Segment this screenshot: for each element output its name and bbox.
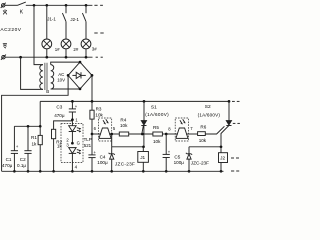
svg-text:+: +: [94, 150, 97, 155]
node neutral-xfmr: [19, 56, 22, 59]
bridge rectifier: [68, 62, 92, 89]
svg-text:C1: C1: [6, 157, 12, 162]
capacitor C5: [165, 134, 167, 154]
capacitor C1: [13, 126, 15, 150]
relay contact J1-1: [65, 5, 67, 13]
relay J2: [220, 147, 222, 153]
LED D2 (pins 3-4): [69, 148, 76, 154]
svg-text:+: +: [75, 104, 78, 109]
node C4 bottom: [91, 170, 94, 173]
node bridge left: [67, 74, 70, 77]
node rail-S2: [228, 100, 231, 103]
svg-text:4: 4: [75, 165, 78, 170]
wire neutral rail: [5, 56, 92, 58]
svg-text:7: 7: [190, 126, 193, 131]
phototransistor 2 (pins 8-7): [176, 128, 188, 138]
node pin4 bottom: [71, 170, 74, 173]
neutral terminal: [2, 56, 5, 59]
svg-text:3#: 3#: [92, 47, 97, 52]
live terminal: [2, 4, 5, 7]
svg-text:10k: 10k: [199, 138, 207, 143]
svg-text:10k: 10k: [153, 139, 161, 144]
transformer core: [44, 63, 46, 90]
svg-text:J1-1: J1-1: [47, 17, 56, 22]
node J1 bottom: [142, 170, 145, 173]
wire lamp1 top: [46, 5, 48, 39]
svg-text:G: G: [77, 141, 80, 146]
svg-text:C5: C5: [174, 155, 180, 160]
node R1 top: [39, 125, 42, 128]
continuation dashes mid level: [94, 32, 97, 34]
capacitor C3: [71, 101, 73, 109]
continuation dashes right S2 level: [233, 122, 236, 124]
wire neutral to primary bottom: [21, 57, 43, 89]
wire bridge minus to ground loop: [2, 75, 69, 171]
wire J1 net: [112, 146, 144, 148]
node zener2 bottom: [188, 170, 191, 173]
thyristor S2: [228, 101, 230, 120]
node pin5-R4-zener: [110, 133, 113, 136]
svg-text:0.1μ: 0.1μ: [17, 163, 26, 168]
lamp 3: [81, 39, 91, 49]
wire R6 to S2 gate: [205, 126, 224, 134]
svg-text:R5: R5: [153, 125, 159, 130]
LED D1 (pins 1-2): [71, 120, 73, 126]
svg-text:(1A/600V): (1A/600V): [198, 112, 221, 117]
svg-text:470μ: 470μ: [2, 163, 13, 168]
svg-text:TLP: TLP: [84, 137, 92, 142]
relay contact J2-1: [85, 5, 87, 13]
live label 火: [3, 9, 7, 14]
node bridge right: [91, 74, 94, 77]
svg-text:10k: 10k: [120, 123, 128, 128]
node rail-xfmr: [33, 4, 36, 7]
svg-text:8: 8: [168, 126, 171, 131]
svg-text:JZC-23F: JZC-23F: [191, 161, 209, 166]
node rail-C3: [71, 100, 74, 103]
svg-text:R6: R6: [200, 125, 206, 130]
node pin1: [71, 118, 74, 121]
phototransistor 2 dashed box: [175, 118, 188, 141]
svg-text:S1: S1: [151, 104, 157, 110]
svg-text:10V: 10V: [57, 77, 65, 82]
svg-text:J2: J2: [220, 155, 225, 160]
svg-text:1#: 1#: [55, 47, 60, 52]
lamp 2: [61, 39, 71, 49]
svg-text:R1: R1: [31, 135, 37, 140]
resistor R6: [198, 132, 206, 136]
optocoupler TLP521 input dashed box: [61, 124, 83, 163]
svg-text:3: 3: [66, 143, 69, 148]
wire filter node: [14, 125, 40, 127]
node rail-lamp1: [45, 4, 48, 7]
node rail-S1: [143, 100, 146, 103]
svg-text:5: 5: [113, 126, 116, 131]
wire bridge plus to DC rail: [91, 75, 93, 101]
resistor R4: [119, 132, 128, 136]
thyristor S1: [143, 101, 145, 120]
lamp 1: [42, 39, 52, 49]
wire pin5 node down to J1 net: [111, 134, 113, 147]
svg-text:470μ: 470μ: [54, 113, 65, 118]
wire rail left drop: [39, 101, 41, 126]
node J2 bottom: [220, 170, 223, 173]
continuation dashes right J2 level: [231, 157, 234, 159]
node R2 bottom: [52, 170, 55, 173]
node J1 top: [142, 145, 145, 148]
wire secondary top to bridge: [51, 62, 80, 65]
node R3-C4-pin6: [91, 133, 94, 136]
wire DC plus rail: [40, 100, 229, 102]
svg-text:J2-1: J2-1: [70, 17, 79, 22]
node S1 gate-cathode: [141, 133, 144, 136]
wire live to transformer primary: [34, 5, 43, 64]
svg-text:+: +: [168, 150, 171, 155]
svg-text:J1: J1: [140, 155, 145, 160]
wire top rail: [26, 4, 93, 6]
node C2 bottom: [27, 170, 30, 173]
wire R5 to pin8: [162, 133, 177, 135]
svg-text:10k: 10k: [95, 112, 103, 117]
svg-text:100μ: 100μ: [97, 160, 108, 165]
node rail-R3: [91, 100, 94, 103]
transformer B primary winding: [40, 65, 43, 90]
capacitor C2: [27, 126, 29, 150]
transformer secondary winding: [51, 65, 54, 89]
svg-text:C2: C2: [20, 157, 26, 162]
svg-text:6: 6: [94, 126, 97, 131]
svg-text:C4: C4: [100, 154, 106, 159]
node neutral-lamp1: [45, 56, 48, 59]
node R1 bottom: [39, 170, 42, 173]
svg-text:B: B: [46, 89, 49, 94]
svg-text:1k: 1k: [57, 144, 63, 149]
wire R4 to S1 gate: [129, 133, 153, 135]
svg-text:(1A/600V): (1A/600V): [145, 112, 169, 117]
neutral label 零: [3, 44, 7, 49]
switch K: [18, 2, 26, 5]
zener D2: [188, 147, 190, 154]
node neutral-lamp2: [65, 56, 68, 59]
node pins 2-3: [71, 142, 74, 145]
svg-text:R3: R3: [96, 107, 102, 112]
relay J1: [142, 147, 144, 152]
node C1 bottom: [13, 170, 16, 173]
svg-text:S2: S2: [205, 104, 211, 110]
wire: [5, 4, 18, 6]
node C5 top: [165, 133, 168, 136]
node bridge bottom: [79, 88, 82, 91]
svg-text:AC220V: AC220V: [0, 27, 21, 33]
capacitor C4: [91, 134, 93, 155]
svg-text:JZC-23F: JZC-23F: [115, 161, 135, 166]
svg-text:+: +: [16, 144, 19, 149]
wire secondary bottom to bridge: [51, 88, 80, 90]
phototransistor 1 dashed box: [98, 118, 111, 141]
node rail-J2-1: [85, 4, 88, 7]
svg-text:1: 1: [75, 118, 78, 123]
node neutral-lamp3: [85, 56, 88, 59]
svg-text:1k: 1k: [32, 141, 38, 146]
svg-text:2#: 2#: [73, 47, 78, 52]
resistor R2: [54, 121, 73, 129]
svg-text:521: 521: [84, 143, 92, 148]
wire J2 net: [189, 146, 221, 148]
resistor R1: [39, 126, 41, 135]
resistor R5: [153, 132, 163, 136]
phototransistor 1 (pins 6-5): [99, 128, 111, 138]
svg-text:K: K: [20, 10, 24, 16]
node bridge top: [79, 61, 82, 64]
node C5 bottom: [165, 170, 168, 173]
svg-text:R4: R4: [120, 118, 126, 123]
svg-text:100μ: 100μ: [174, 160, 185, 165]
resistor R3: [91, 101, 93, 110]
node zener1 bottom: [110, 170, 113, 173]
node C2 top: [27, 125, 30, 128]
wire ground rail: [2, 170, 224, 172]
svg-text:C3: C3: [56, 105, 62, 110]
zener D1: [111, 147, 113, 154]
node J2 top: [220, 145, 223, 148]
node rail-J1-1: [65, 4, 68, 7]
